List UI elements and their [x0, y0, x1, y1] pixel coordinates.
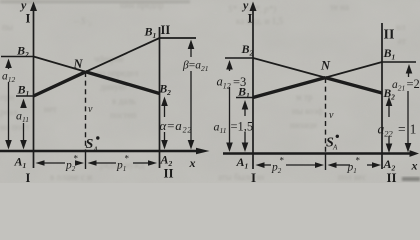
- line B1-B1 thin part (right diagram): [325, 62, 382, 78]
- dashed line N to S*A: [85, 72, 87, 151]
- right x-axis arrowhead: [410, 150, 420, 157]
- dark smudge bottom-right: [402, 177, 420, 181]
- svg-text:N: N: [73, 57, 84, 71]
- p2* left arrow: [36, 160, 45, 166]
- a12 down arrow (right): [226, 143, 233, 153]
- p1* right arrow: [148, 160, 157, 166]
- svg-text:м тр: м тр: [296, 92, 313, 102]
- extension below axis at S*A (right diagram): [325, 154, 327, 171]
- svg-text:в даль: в даль: [112, 96, 136, 106]
- svg-text:ил: ил: [396, 22, 406, 32]
- dashed line N to S*A (right diagram): [325, 78, 327, 154]
- left x-axis: [0, 150, 201, 152]
- a11 dim shafts (right diagram): [244, 107, 246, 116]
- alpha up arrow: [161, 97, 168, 107]
- a11 down arrow: [20, 140, 27, 150]
- tick at B2 level left (right diagram): [225, 57, 253, 59]
- a22 dim shafts (right diagram): [388, 104, 390, 117]
- svg-text:=3: =3: [233, 75, 246, 89]
- p1* dim shafts (right diagram): [335, 164, 350, 166]
- top reference line at B1-right level: [160, 37, 197, 39]
- svg-text:*: *: [74, 154, 79, 164]
- y-axis arrowhead: [30, 2, 37, 12]
- svg-text:постеп: постеп: [110, 110, 136, 120]
- tick at B1 level left (right diagram): [236, 97, 253, 99]
- line B2-B2 thick part (lower envelope): [86, 72, 160, 94]
- alpha dimension shafts: [164, 104, 166, 117]
- svg-text:ны коэф: ны коэф: [292, 106, 323, 116]
- svg-text:II: II: [387, 170, 397, 183]
- p2* dimension shaft: [43, 162, 65, 164]
- tick at B1 level left: [16, 95, 34, 97]
- paper background: [0, 0, 420, 183]
- a22 up arrow (right): [386, 97, 393, 107]
- svg-text:ка вид. и 1,5: ка вид. и 1,5: [236, 16, 283, 26]
- a12 down arrow: [5, 140, 12, 150]
- svg-text:A: A: [332, 144, 338, 152]
- line B1-B1 thin part: [86, 38, 160, 72]
- svg-text:пы: пы: [2, 22, 13, 32]
- svg-text:y: y: [241, 0, 249, 12]
- svg-text:аты было зн: аты было зн: [218, 172, 264, 182]
- p1* left arrow (right): [328, 162, 337, 168]
- svg-text:I: I: [26, 12, 31, 26]
- beta down arrow: [188, 140, 195, 150]
- tick at B1 level right (right diagram): [382, 61, 416, 63]
- a11 up arrow: [20, 99, 27, 109]
- svg-text:I: I: [251, 170, 256, 183]
- svg-text:нет: нет: [44, 104, 57, 114]
- svg-text:II: II: [164, 166, 174, 181]
- beta up arrow: [188, 40, 195, 50]
- svg-text:x: x: [411, 159, 418, 173]
- svg-text:*: *: [356, 156, 361, 166]
- a11 dimension shafts: [23, 105, 25, 107]
- svg-text:ет: ет: [398, 36, 406, 46]
- svg-text:A: A: [93, 146, 99, 154]
- line B2-B2 thin part: [34, 57, 86, 72]
- line B2-B2 thick part (right diagram): [325, 78, 382, 93]
- a12 dim shafts (right diagram): [229, 67, 231, 71]
- svg-text:=1,5: =1,5: [231, 120, 254, 134]
- svg-text:S: S: [86, 137, 94, 152]
- a22 down arrow (right): [386, 144, 393, 154]
- a21 up arrow (right): [406, 64, 413, 74]
- p1* right arrow (right): [372, 162, 381, 168]
- p2* right arrow: [75, 160, 84, 166]
- beta dimension shafts: [190, 47, 192, 57]
- svg-text:те на: те на: [330, 2, 349, 12]
- svg-text:пол вес: пол вес: [338, 172, 366, 182]
- svg-text:v: v: [88, 104, 93, 115]
- p2* right arrow (right): [315, 162, 324, 168]
- svg-text:N: N: [320, 59, 331, 73]
- p1* left arrow: [88, 160, 97, 166]
- line B1-B1 thick part (right diagram): [253, 78, 325, 98]
- svg-text:y: y: [19, 0, 27, 12]
- x-axis arrowhead: [196, 148, 210, 155]
- line II vertical (right diagram): [381, 23, 383, 169]
- svg-text:=1: =1: [398, 122, 420, 137]
- line B1-B1 thick part (lower envelope): [34, 72, 86, 96]
- p1* dimension shafts: [95, 162, 116, 164]
- left y-axis (player I axis): [33, 5, 35, 168]
- p2* left arrow (right): [256, 162, 265, 168]
- a12 up arrow: [5, 59, 12, 69]
- right x-axis: [223, 152, 410, 154]
- right y-axis: [252, 5, 254, 169]
- svg-text:*: *: [125, 154, 130, 164]
- svg-text:*: *: [280, 156, 285, 166]
- svg-text:– S⋅₂: – S⋅₂: [73, 16, 91, 26]
- bleed-through ghost text: [0, 0, 406, 182]
- svg-text:в плане с и: в плане с и: [50, 172, 92, 182]
- a12 up arrow (right): [226, 60, 233, 70]
- right y-axis arrowhead: [250, 2, 257, 12]
- extension below axis at S*A: [85, 151, 87, 169]
- svg-text:при: при: [0, 92, 14, 102]
- a11 down arrow (right): [242, 143, 249, 153]
- svg-text:II: II: [384, 28, 395, 43]
- svg-text:v: v: [329, 110, 334, 121]
- alpha down arrow: [161, 140, 168, 150]
- line B2-B2 thin part (right diagram): [253, 58, 325, 78]
- svg-text:низаци: низаци: [290, 120, 317, 130]
- a21 down arrow (right): [405, 143, 412, 153]
- a12 dimension shafts: [8, 65, 10, 69]
- svg-text:=2: =2: [407, 77, 420, 91]
- svg-text:II: II: [161, 23, 171, 37]
- tick at B2 level left: [1, 56, 34, 58]
- p2* dim shafts (right diagram): [263, 164, 271, 166]
- a11 up arrow (right): [242, 100, 249, 110]
- a21 dim shafts (right diagram): [408, 71, 410, 77]
- line II vertical: [159, 27, 161, 168]
- svg-text:I: I: [26, 171, 31, 183]
- svg-text:I: I: [248, 12, 253, 26]
- svg-text:x: x: [189, 156, 196, 170]
